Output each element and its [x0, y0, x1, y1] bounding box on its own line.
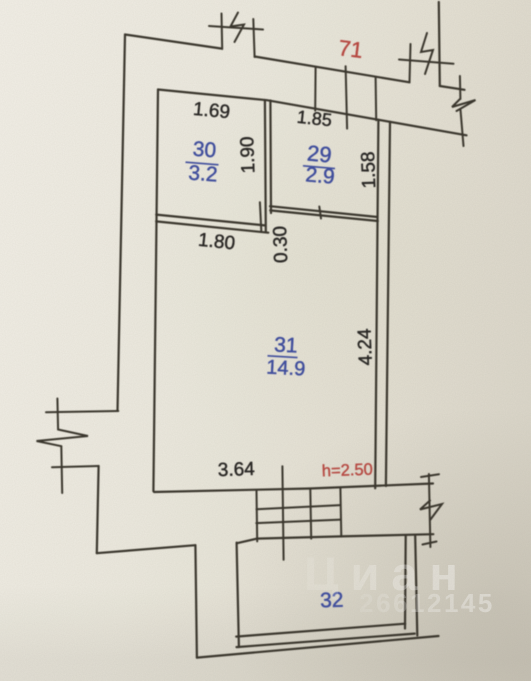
wall outer bottom contour — [197, 636, 439, 658]
wall inner top (rooms 30/29) — [158, 90, 467, 136]
break right vertical — [429, 474, 431, 547]
break top tick 1 — [221, 14, 224, 50]
wall room29 bottom lower line — [270, 210, 378, 221]
break right cap top — [421, 474, 439, 477]
break right cap bottom — [423, 542, 437, 545]
tick dim 1.80 right — [260, 202, 261, 230]
stairs riser 3 — [309, 489, 312, 538]
break top cap line — [209, 26, 263, 30]
stairs tread line 1 — [257, 505, 341, 509]
wall room29 bottom upper line — [270, 206, 378, 217]
break A zigzag — [421, 33, 433, 74]
stairs left riser — [256, 491, 259, 541]
fraction bar room 29 — [303, 166, 335, 169]
wall vertical from top edge — [439, 2, 440, 86]
wall A outer upper-right — [255, 57, 410, 83]
wall divider 30/29 right line — [269, 101, 272, 214]
break B tick — [459, 76, 462, 99]
break top zigzag — [231, 13, 245, 43]
break A cap line — [399, 60, 454, 64]
stairs right riser — [339, 488, 342, 536]
window jamb 1 — [314, 67, 316, 111]
wall outer top — [125, 35, 221, 49]
wall room32 right outer — [415, 536, 417, 636]
window jamb 2 — [346, 66, 348, 128]
window jamb 3 — [375, 77, 378, 120]
break left cap 1 — [46, 411, 118, 412]
wall outer entrance left — [195, 545, 197, 657]
wall room32 top — [237, 534, 433, 543]
break left connector — [60, 446, 63, 493]
break right zigzag — [420, 501, 442, 520]
wall right 29/31 inner line — [375, 120, 378, 489]
wall room32 bottom inner — [236, 624, 405, 637]
wall right 29/31 outer line — [386, 122, 390, 486]
wall room30 bottom upper line — [156, 215, 265, 226]
wall outer bottom step — [97, 545, 196, 553]
wall room32 left — [237, 543, 239, 648]
wall short right — [440, 86, 465, 90]
tick room29 bottom — [319, 207, 321, 219]
wall divider 30/29 left line — [264, 100, 267, 232]
break left cap 2 — [52, 466, 99, 467]
break left zigzag — [37, 430, 89, 447]
wall inner left (rooms 30/31) — [153, 90, 158, 492]
break top tick 2 — [253, 19, 254, 57]
fraction bar room 31 — [268, 356, 298, 358]
break B connector down — [461, 110, 464, 146]
break A connector up — [410, 44, 411, 82]
break left tick 1 — [56, 399, 59, 430]
wall room32 right inner — [404, 536, 407, 629]
wall outer left — [118, 35, 126, 412]
stairs center line — [282, 466, 283, 560]
break B zigzag — [452, 99, 476, 111]
wall room32 bottom outer — [237, 634, 415, 648]
wall outer left lower — [97, 466, 99, 553]
stairs tread line 2 — [256, 520, 340, 524]
wall room30 bottom lower line — [156, 221, 268, 232]
wall room31 bottom — [154, 484, 433, 493]
fraction bar room 30 — [186, 162, 219, 165]
